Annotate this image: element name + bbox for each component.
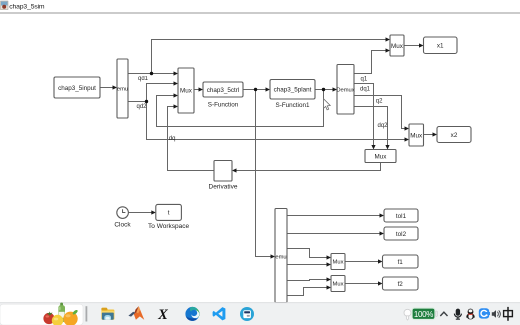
svg-text:Derivative: Derivative bbox=[209, 183, 238, 190]
mic icon bbox=[454, 309, 461, 320]
svg-text:chap3_5plant: chap3_5plant bbox=[274, 87, 312, 94]
svg-text:x1: x1 bbox=[437, 43, 444, 50]
matlab icon bbox=[128, 306, 144, 320]
arrowhead into f1 bbox=[378, 259, 383, 263]
s-function chap3_5ctrl bbox=[203, 82, 243, 97]
block f1 bbox=[383, 255, 419, 268]
wire mux1 to ctrl bbox=[194, 89, 199, 91]
block derivative bbox=[214, 161, 232, 182]
block tol2 bbox=[384, 227, 418, 240]
arrowhead into plant bbox=[266, 87, 271, 91]
node qd1 branch bbox=[150, 72, 153, 75]
svg-text:Mux: Mux bbox=[375, 153, 388, 160]
wire mux2 to x1 bbox=[404, 45, 420, 47]
demux D3 bbox=[275, 209, 287, 303]
wire clock to workspace bbox=[128, 212, 151, 214]
wire plant to demux2 bbox=[315, 89, 333, 91]
arrowhead mux6 in2 bbox=[327, 285, 332, 289]
start fruit icon bbox=[43, 303, 78, 325]
wire q2 to mux3 bbox=[354, 96, 405, 129]
svg-text:q1: q1 bbox=[361, 76, 368, 82]
file explorer icon bbox=[101, 308, 114, 320]
svg-text:chap3_5input: chap3_5input bbox=[58, 85, 96, 92]
wire qd2 stub bbox=[128, 101, 147, 103]
vscode icon bbox=[213, 307, 226, 320]
svg-text:chap3_5sim: chap3_5sim bbox=[9, 3, 45, 10]
wire demux3 out6 to mux6 bbox=[287, 288, 327, 296]
mux M3 bbox=[409, 124, 424, 146]
arrowhead mux5 in1 bbox=[327, 255, 332, 259]
demux D2 bbox=[337, 65, 354, 115]
wire demux3 out2 to tol2 bbox=[287, 233, 380, 235]
svg-text:100%: 100% bbox=[414, 310, 433, 319]
wire demux3 out3 to mux5 bbox=[287, 249, 327, 258]
svg-text:tol1: tol1 bbox=[396, 213, 407, 220]
blue C app icon bbox=[479, 308, 490, 318]
svg-text:Mux: Mux bbox=[333, 281, 344, 287]
svg-text:Mux: Mux bbox=[391, 43, 404, 50]
wire demux3 out1 to tol1 bbox=[287, 215, 380, 217]
active task button bbox=[0, 304, 83, 325]
arrowhead into f2 bbox=[378, 281, 383, 285]
arrowhead mux4 in1 down bbox=[371, 145, 375, 150]
mux M6 bbox=[331, 276, 345, 292]
svg-text:Mux: Mux bbox=[410, 132, 423, 139]
wire tau branch down to demux3 bbox=[256, 90, 272, 257]
wire qd1 bbox=[128, 73, 174, 75]
arrowhead mux6 in1 bbox=[327, 277, 332, 281]
svg-text:Clock: Clock bbox=[114, 221, 131, 228]
arrowhead into tol1 bbox=[380, 213, 385, 217]
svg-text:t: t bbox=[168, 210, 170, 217]
edge icon bbox=[184, 305, 203, 322]
demux D1 bbox=[117, 59, 128, 118]
svg-text:qd2: qd2 bbox=[137, 104, 148, 110]
qq penguin icon bbox=[466, 309, 474, 320]
block tol1 bbox=[384, 209, 418, 222]
clock block bbox=[117, 207, 129, 219]
IME zhong glyph bbox=[504, 307, 513, 321]
svg-text:chap3_5ctrl: chap3_5ctrl bbox=[207, 87, 240, 94]
node plant output branch bbox=[322, 88, 325, 91]
svg-text:x2: x2 bbox=[451, 132, 458, 139]
block to-workspace t bbox=[156, 204, 182, 220]
wire mux4 down to derivative bbox=[236, 163, 381, 171]
arrowhead into demux3 bbox=[271, 254, 276, 258]
speaker icon bbox=[492, 310, 501, 318]
wire top rail qd1 to mux2 bbox=[152, 40, 387, 74]
svg-text:X: X bbox=[157, 307, 168, 323]
arrowhead mux3 in1 bbox=[405, 126, 410, 130]
arrowhead into demux1 bbox=[113, 85, 118, 89]
svg-text:emu: emu bbox=[117, 87, 128, 93]
wire dq1 down to mux4 bbox=[354, 84, 374, 146]
wire mux6 to f2 bbox=[345, 283, 379, 285]
arrowhead mux1 in2 bbox=[174, 81, 179, 85]
svg-text:S-Function: S-Function bbox=[208, 102, 239, 109]
node qd2 branch bbox=[145, 100, 148, 103]
wire feedback x to mux1 bbox=[157, 90, 324, 127]
arrowhead mux2 in1 bbox=[386, 37, 391, 41]
mux M2 bbox=[390, 35, 404, 56]
arrowhead mux1 in4 bbox=[174, 104, 179, 108]
wire input to demux1 bbox=[100, 87, 114, 89]
svg-text:dq: dq bbox=[169, 136, 176, 142]
svg-text:Demux: Demux bbox=[336, 88, 354, 94]
svg-text:Mux: Mux bbox=[333, 260, 344, 266]
svg-text:dq2: dq2 bbox=[378, 123, 389, 129]
arrowhead into derivative pointing left bbox=[232, 168, 237, 172]
mux M4 bbox=[365, 150, 396, 163]
mux M1 bbox=[178, 68, 194, 113]
svg-text:dq1: dq1 bbox=[360, 86, 371, 92]
wire qd2 up branch to mux1 bbox=[147, 84, 175, 102]
arrowhead into demux2 bbox=[333, 87, 338, 91]
svg-text:qd1: qd1 bbox=[138, 76, 149, 82]
arrowhead mux3 in2 bbox=[405, 137, 410, 141]
svg-text:f1: f1 bbox=[398, 259, 404, 266]
mux M5 bbox=[331, 254, 345, 270]
taskbar separator bbox=[86, 306, 88, 321]
wire demux3 out5 to mux6 bbox=[287, 280, 327, 281]
svg-text:tol2: tol2 bbox=[396, 231, 407, 238]
s-function chap3_5plant bbox=[270, 80, 315, 100]
svg-text:emu: emu bbox=[275, 255, 286, 261]
arrowhead mux1 in1 bbox=[174, 71, 179, 75]
wire qd2 down branch to mux3 bbox=[147, 102, 406, 140]
arrowhead mux4 in2 down bbox=[385, 145, 389, 150]
node tau branch bbox=[254, 88, 257, 91]
wire mux3 to x2 bbox=[424, 134, 434, 136]
arrowhead into tol2 bbox=[380, 231, 385, 235]
svg-text:To Workspace: To Workspace bbox=[148, 223, 189, 230]
wire derivative out to mux1 bbox=[168, 107, 215, 171]
mouse cursor bbox=[324, 99, 331, 110]
tray plug icon bbox=[404, 309, 411, 320]
wire mux5 to f1 bbox=[345, 261, 379, 263]
svg-text:S-Function1: S-Function1 bbox=[276, 102, 310, 109]
window title icon bbox=[1, 1, 9, 10]
clock hands bbox=[123, 209, 126, 212]
block chap3_5input bbox=[54, 77, 100, 98]
block x1 bbox=[424, 37, 458, 54]
chevron up bbox=[440, 312, 447, 316]
arrowhead into x1 bbox=[419, 43, 424, 47]
block f2 bbox=[383, 277, 419, 290]
taskbar bbox=[0, 302, 520, 325]
arrowhead into workspace bbox=[151, 210, 156, 214]
wire q1 to mux2 bbox=[354, 51, 386, 74]
wire demux3 out4 to mux5 bbox=[287, 264, 327, 266]
wire ctrl to plant bbox=[243, 89, 266, 91]
arrowhead into ctrl bbox=[199, 87, 204, 91]
battery badge 100% bbox=[412, 308, 438, 320]
arrowhead into x2 bbox=[433, 132, 438, 136]
blue circle app icon bbox=[240, 307, 254, 321]
arrowhead mux5 in2 bbox=[327, 262, 332, 266]
svg-text:Mux: Mux bbox=[180, 88, 193, 95]
svg-text:f2: f2 bbox=[398, 281, 404, 288]
title bar divider bbox=[0, 12, 520, 13]
arrowhead mux2 in2 bbox=[386, 48, 391, 52]
wire dq2 down to mux4 bbox=[354, 107, 388, 146]
block x2 bbox=[437, 127, 471, 143]
arrowhead mux1 in3 bbox=[174, 93, 179, 97]
svg-text:q2: q2 bbox=[376, 99, 383, 105]
